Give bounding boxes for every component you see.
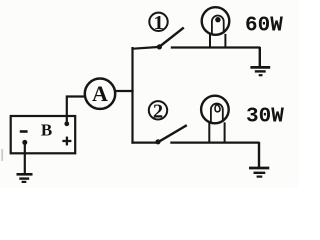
switch S1 contact dot xyxy=(157,44,162,49)
junction vertical wire xyxy=(131,47,133,144)
ground under battery xyxy=(17,174,33,182)
top branch wire to switch 1 xyxy=(131,47,158,49)
wire battery negative to ground xyxy=(24,142,26,173)
battery negative terminal dot xyxy=(22,140,27,145)
svg-text:1: 1 xyxy=(153,12,163,34)
svg-text:A: A xyxy=(92,81,108,106)
battery minus sign xyxy=(20,130,28,133)
svg-text:60W: 60W xyxy=(245,14,283,37)
lamp L2 filament loop xyxy=(215,104,220,111)
wire battery positive up to ammeter xyxy=(67,97,86,124)
battery B box xyxy=(11,116,76,153)
svg-text:30W: 30W xyxy=(246,105,284,128)
battery plus sign xyxy=(62,140,71,142)
battery positive terminal dot xyxy=(64,121,69,126)
lamp L1 (60W bulb) xyxy=(202,7,230,35)
bottom branch wire switch to lamp and ground corner xyxy=(170,142,259,144)
lamp L2 (30W bulb) xyxy=(201,96,229,124)
label circled 1 xyxy=(149,13,167,31)
top branch wire switch to lamp and ground corner xyxy=(171,46,260,48)
lamp L1 neck xyxy=(209,34,211,48)
ground 2 xyxy=(249,168,269,177)
switch S2 contact dot xyxy=(155,139,160,144)
label circled 2 xyxy=(149,101,167,119)
scan smudge left edge xyxy=(1,149,3,161)
bottom branch wire down to ground 2 xyxy=(258,142,260,168)
svg-text:2: 2 xyxy=(153,101,163,123)
bottom branch wire to switch 2 xyxy=(131,142,156,144)
switch S1 blade xyxy=(158,28,184,48)
ground 1 xyxy=(250,67,270,75)
switch S2 blade xyxy=(156,125,187,143)
ammeter A xyxy=(85,79,115,109)
wire ammeter to junction xyxy=(115,90,134,92)
top branch wire down to ground 1 xyxy=(259,47,261,67)
lamp L1 inner envelope arch xyxy=(212,15,224,33)
svg-text:B: B xyxy=(41,120,52,139)
lamp L2 inner envelope arch xyxy=(211,104,223,122)
lamp L2 neck xyxy=(208,122,210,143)
lamp L1 filament dot xyxy=(215,17,220,22)
